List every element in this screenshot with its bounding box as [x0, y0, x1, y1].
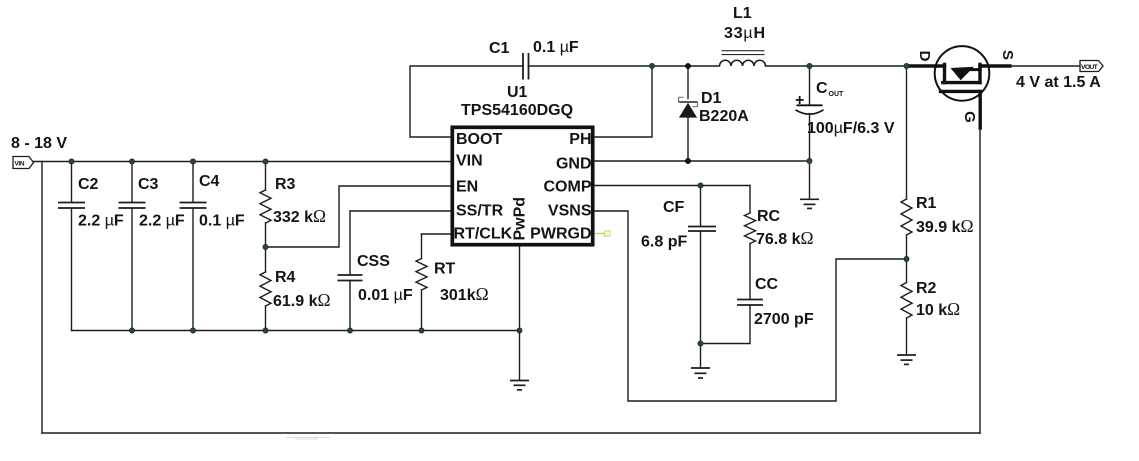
svg-text:TPS54160DGQ: TPS54160DGQ	[461, 102, 573, 119]
svg-text:R3: R3	[275, 176, 296, 193]
capacitor C2	[58, 162, 85, 331]
port VIN	[13, 157, 34, 169]
wire CF bottom to ground	[700, 344, 702, 369]
svg-text:VIN: VIN	[456, 153, 483, 170]
svg-text:L1: L1	[733, 5, 752, 22]
svg-text:RC: RC	[757, 208, 781, 225]
junction switch node at D1	[685, 63, 690, 68]
resistor RC	[745, 186, 756, 300]
capacitor CC	[701, 300, 764, 344]
svg-text:D: D	[916, 51, 933, 62]
svg-text:332 kΩ: 332 kΩ	[273, 206, 326, 226]
capacitor C3	[119, 162, 146, 331]
label COUT	[816, 80, 844, 98]
svg-text:RT/CLK: RT/CLK	[454, 226, 513, 243]
wire EN pin to R3/R4 divider	[266, 186, 451, 247]
wire bottom long rail	[42, 432, 980, 434]
svg-text:D1: D1	[701, 90, 722, 107]
svg-text:10 kΩ: 10 kΩ	[916, 299, 960, 319]
junction VIN bus at C4	[191, 159, 196, 164]
junction switch node at PH	[650, 64, 655, 69]
svg-text:PwPd: PwPd	[512, 197, 529, 241]
svg-text:COMP: COMP	[544, 179, 592, 196]
svg-text:VOUT: VOUT	[1081, 64, 1099, 71]
faint artifact near bottom rail	[286, 438, 330, 440]
wire left rail down from VIN node	[41, 162, 43, 434]
svg-text:OUT: OUT	[829, 91, 845, 98]
wire GND pin rail to COUT	[595, 160, 810, 162]
svg-text:8 - 18 V: 8 - 18 V	[11, 135, 67, 152]
junction ground bus at RT	[419, 328, 424, 333]
junction VIN bus at C3	[130, 159, 135, 164]
junction output node at COUT	[807, 64, 812, 69]
svg-text:C2: C2	[78, 176, 99, 193]
ground under R2	[897, 355, 916, 364]
svg-text:GND: GND	[556, 156, 592, 173]
svg-text:BOOT: BOOT	[456, 131, 502, 148]
resistor R1	[901, 66, 912, 259]
svg-text:CF: CF	[663, 199, 685, 216]
diode D1 (B220A schottky)	[679, 66, 698, 161]
wire switch node rail C1 to L1	[529, 65, 720, 67]
wire RT/CLK pin to RT	[422, 233, 451, 235]
junction ground bus at PwPd	[517, 328, 522, 333]
svg-text:0.1 µF: 0.1 µF	[199, 213, 245, 230]
wire source to VOUT port	[1010, 65, 1080, 67]
wire SS/TR pin to CSS	[350, 210, 450, 212]
junction ground bus at C3	[130, 328, 135, 333]
junction GND rail at COUT	[807, 159, 812, 164]
svg-text:C: C	[816, 80, 828, 97]
svg-text:R4: R4	[275, 269, 296, 286]
svg-text:B220A: B220A	[699, 108, 749, 125]
svg-text:6.8 pF: 6.8 pF	[641, 234, 687, 251]
svg-text:VIN: VIN	[15, 161, 25, 168]
svg-text:SS/TR: SS/TR	[456, 203, 504, 220]
svg-text:VSNS: VSNS	[548, 203, 592, 220]
wire gate down to bottom rail	[979, 128, 981, 433]
inductor L1	[720, 51, 766, 66]
ground under PwPd	[510, 381, 529, 390]
svg-text:33µH: 33µH	[724, 25, 766, 42]
svg-text:G: G	[961, 111, 978, 123]
wire VIN bus to U1 VIN pin	[34, 161, 451, 163]
capacitor CF	[688, 186, 716, 344]
svg-text:2700 pF: 2700 pF	[754, 311, 814, 328]
svg-text:CSS: CSS	[357, 253, 390, 270]
resistor RT	[416, 234, 427, 331]
svg-text:C4: C4	[199, 173, 220, 190]
junction output node at R1	[904, 64, 909, 69]
svg-text:39.9 kΩ: 39.9 kΩ	[916, 216, 974, 236]
ground under CF/CC	[691, 368, 710, 378]
transistor Q1 (P-MOSFET)	[908, 46, 1010, 128]
svg-text:C3: C3	[138, 176, 159, 193]
junction VIN bus at C2	[69, 159, 74, 164]
svg-text:0.1 µF: 0.1 µF	[533, 39, 579, 56]
svg-text:C1: C1	[489, 40, 510, 57]
svg-text:R1: R1	[916, 195, 937, 212]
svg-text:EN: EN	[456, 179, 478, 196]
resistor R3	[260, 162, 271, 248]
wire BOOT pin up and over to C1	[410, 66, 523, 137]
wire PwPd pad to ground	[519, 247, 521, 380]
junction ground bus at CSS	[348, 328, 353, 333]
wire COMP pin to compensation network	[595, 185, 750, 187]
ground under COUT	[800, 199, 819, 208]
junction CF/CC ground node	[698, 341, 703, 346]
wire VSNS pin to feedback divider	[595, 211, 907, 401]
pin stub PWRGD (unconnected)	[595, 231, 610, 236]
wire L1 to output node	[766, 65, 909, 67]
wire PH pin to switch node	[595, 66, 652, 137]
capacitor C1	[523, 53, 529, 80]
junction ground bus at C4	[191, 328, 196, 333]
svg-text:RT: RT	[434, 261, 456, 278]
svg-text:0.01 µF: 0.01 µF	[358, 287, 413, 304]
capacitor CSS	[338, 211, 363, 331]
svg-text:4 V at 1.5 A: 4 V at 1.5 A	[1016, 74, 1101, 91]
svg-text:+: +	[795, 92, 804, 109]
capacitor COUT (polarized)	[796, 66, 824, 199]
resistor R2	[901, 259, 912, 355]
svg-text:PH: PH	[569, 131, 591, 148]
svg-text:CC: CC	[755, 276, 779, 293]
svg-text:PWRGD: PWRGD	[530, 226, 591, 243]
resistor R4	[260, 247, 271, 331]
capacitor C4	[180, 162, 207, 331]
junction R3/R4 node	[263, 245, 268, 250]
svg-text:R2: R2	[916, 280, 937, 297]
junction VIN bus at R3	[263, 159, 268, 164]
junction COMP node at CF	[698, 183, 703, 188]
svg-text:100µF/6.3 V: 100µF/6.3 V	[807, 120, 895, 137]
svg-text:61.9 kΩ: 61.9 kΩ	[273, 290, 331, 310]
op-amp U1 TPS54160DGQ body	[452, 127, 592, 244]
junction R1/R2 feedback node	[904, 257, 909, 262]
svg-text:U1: U1	[507, 84, 528, 101]
junction GND rail at D1	[685, 158, 690, 163]
svg-text:S: S	[999, 50, 1016, 60]
port VOUT	[1080, 61, 1103, 72]
svg-text:2.2 µF: 2.2 µF	[78, 213, 124, 230]
svg-text:76.8 kΩ: 76.8 kΩ	[756, 228, 814, 248]
junction ground bus at R4	[263, 328, 268, 333]
svg-text:2.2 µF: 2.2 µF	[139, 213, 185, 230]
svg-text:301kΩ: 301kΩ	[440, 284, 489, 304]
wire ground bus under input caps	[72, 330, 520, 332]
